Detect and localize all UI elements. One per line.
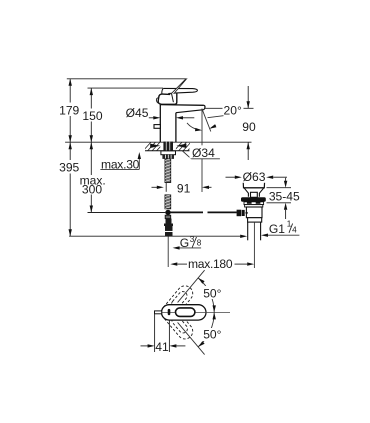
deck bottom line (145, 150, 190, 152)
plan view pivot bar (168, 309, 171, 315)
waste flange (black) (241, 197, 266, 202)
dimension text 179 (58, 103, 82, 118)
svg-text:G1: G1 (269, 222, 285, 236)
50deg boundary line lower (178, 322, 205, 354)
spout underside (176, 110, 204, 113)
dimension text max.300 (80, 173, 107, 196)
dimension line 41 (141, 344, 186, 347)
svg-text:179: 179 (59, 103, 79, 117)
dimension text 35-45 (269, 189, 300, 203)
50deg arc lower with arrowheads (198, 312, 216, 347)
dimension text 150 (81, 109, 103, 123)
extension line handle-top level y=78.8 (67, 78, 186, 80)
washer below deck (161, 151, 176, 155)
dimension max.180 (170, 257, 254, 271)
plan view handle slot (176, 308, 195, 317)
faucet lower centerline (167, 237, 169, 268)
dimension Ø63 (226, 170, 288, 184)
waste funnel taper (244, 188, 264, 197)
dimension text 41 (155, 340, 169, 354)
deck hole arrows (Ø34) (150, 144, 186, 148)
svg-text:300: 300 (82, 182, 102, 196)
spout outlet level extension line y=108.3 (204, 107, 254, 109)
20 degree vertical leg / spout tip extension line x=202 (201, 109, 203, 193)
plan view dashed handle rotated up 50deg (158, 283, 196, 324)
svg-text:395: 395 (59, 160, 79, 174)
handle grip body (156, 94, 176, 105)
plan view centerline (155, 311, 230, 313)
svg-text:max.180: max.180 (188, 257, 233, 271)
lever blade (rest position) (162, 88, 198, 94)
svg-text:150: 150 (82, 109, 102, 123)
20 degree arc with arrowheads (187, 123, 216, 131)
dimension line 179/395 at x=70.2 (69, 79, 72, 236)
waste inlet nut (left) (237, 210, 248, 217)
41 extension line right (from pivot) (168, 320, 170, 352)
svg-text:41: 41 (155, 340, 169, 354)
dimension line 91 (152, 186, 212, 189)
extension line pop-up linkage level y=212.5 (88, 212, 166, 214)
svg-text:20°: 20° (224, 104, 242, 118)
pop-up rod knob tab (front view) (154, 125, 160, 129)
waste second band (245, 205, 263, 207)
extension line lever-rest level y=88.1 (88, 87, 164, 89)
waste main body (246, 207, 262, 218)
dimension text 20deg with leader (208, 104, 244, 118)
lever raised position (thin outline) (169, 79, 187, 97)
dimension text 395 (58, 160, 82, 174)
dimension text 50deg lower (202, 328, 224, 342)
dimension line 90 (247, 86, 250, 160)
plan view knob tab (155, 311, 162, 314)
waste plug neck (251, 192, 258, 197)
waste centerline (253, 222, 255, 268)
threaded shank in deck (163, 142, 173, 151)
faucet body/spout top line (160, 104, 204, 107)
41 extension line left (from knob) (154, 314, 156, 352)
pop-up waste cup (Ø63 head) (243, 180, 264, 188)
plan view faucet footprint (stadium) (162, 305, 207, 320)
svg-text:50°: 50° (203, 287, 221, 301)
flexible hose lower segment (163, 194, 173, 209)
svg-text:Ø34: Ø34 (192, 146, 215, 160)
svg-text:8: 8 (197, 239, 202, 248)
svg-text:35-45: 35-45 (269, 189, 300, 203)
svg-text:4: 4 (292, 226, 297, 235)
waste upper band with tabs (244, 202, 264, 205)
svg-text:Ø63: Ø63 (243, 170, 266, 184)
extension line hose-end level y=236.2 (69, 235, 247, 238)
dimension text 91 (177, 182, 191, 196)
G3/8 hose end fitting (164, 219, 173, 237)
spout tip curl (204, 105, 205, 109)
svg-text:Ø45: Ø45 (126, 106, 149, 120)
deck hatching right piece (173, 141, 197, 152)
G1 1/4 label with leader (261, 220, 299, 237)
dimension Ø45 with arrows (126, 106, 195, 120)
svg-text:91: 91 (177, 182, 191, 196)
faucet body left edge (159, 105, 161, 143)
50deg arc upper with arrowheads (198, 278, 216, 313)
pop-up linkage pipe (168, 211, 237, 213)
waste lower section (248, 218, 262, 222)
35-45 extension lines (267, 188, 292, 203)
faucet body right edge (175, 113, 177, 143)
dimension text 90 (242, 120, 256, 134)
G3/8 label with leader (173, 235, 202, 250)
dimension line 35-45 (284, 178, 287, 219)
50deg boundary line upper (178, 270, 205, 302)
dimension line 150/max300 at x=91.3 (90, 88, 93, 212)
junction dot pop-up linkage (165, 210, 170, 215)
flexible hose upper segment (163, 158, 173, 185)
hose segment below junction (165, 215, 171, 218)
dimension text max.30 with leader (100, 152, 141, 172)
plan view dashed handle rotated down 50deg (158, 302, 196, 343)
Ø34 label with leader (182, 145, 222, 160)
waste tailpipe (248, 222, 261, 240)
deck hatching left piece (142, 141, 170, 152)
dimension 91 tick at faucet centerline (165, 182, 167, 192)
20 degree angled leg (203, 110, 211, 131)
dimension text 50deg upper (202, 286, 224, 301)
mounting nut (162, 155, 174, 159)
svg-text:90: 90 (242, 120, 256, 134)
svg-text:50°: 50° (203, 328, 221, 342)
extension line deck top y=142.2 (65, 141, 251, 143)
